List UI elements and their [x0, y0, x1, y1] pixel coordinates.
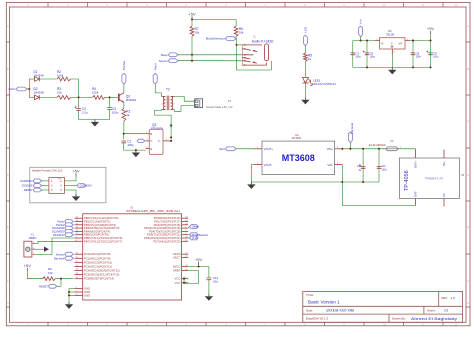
svg-text:10k: 10k	[48, 271, 53, 275]
wire gnd2	[69, 291, 75, 293]
svg-text:T2: T2	[166, 88, 170, 92]
svg-text:100k: 100k	[92, 91, 99, 95]
svg-text:10: 10	[382, 323, 386, 327]
Q3 pin 1 B	[146, 133, 150, 135]
port Sensor	[168, 59, 178, 63]
junction R7 sleep	[191, 54, 193, 56]
LED1 204-10UYC/S530-A3	[302, 77, 308, 83]
wire to D1	[29, 78, 34, 80]
svg-text:PwrIn: PwrIn	[9, 87, 17, 91]
junction R7 sensor	[191, 60, 193, 62]
svg-text:2.2u: 2.2u	[82, 111, 88, 115]
IC U3 TP4056	[399, 158, 459, 198]
node PwrIn junction	[28, 88, 30, 90]
svg-text:Bat level: Bat level	[54, 256, 64, 260]
wire pin2 to 5V	[64, 177, 76, 181]
svg-text:2018-02-08: 2018-02-08	[326, 309, 354, 313]
svg-text:100k: 100k	[57, 74, 64, 78]
port PwrSw vertical above Q2	[122, 73, 126, 84]
junction out rail	[412, 40, 414, 42]
svg-text:100n: 100n	[416, 56, 422, 59]
svg-text:Ahmed El Baghdady: Ahmed El Baghdady	[411, 317, 457, 321]
svg-text:100u: 100u	[370, 56, 376, 59]
svg-text:RESET: RESET	[39, 284, 48, 288]
junction jack pin1 feed	[236, 44, 238, 46]
wire C12 to gnd	[208, 280, 210, 294]
wire input rail	[353, 40, 375, 42]
svg-text:C: C	[158, 139, 160, 143]
svg-text:VO: VO	[399, 42, 403, 45]
wire vcc1 stub	[184, 278, 188, 280]
svg-text:A: A	[467, 24, 469, 28]
junction gnd rail	[412, 66, 414, 68]
svg-text:VOUT-: VOUT-	[264, 163, 273, 167]
port LED vertical	[303, 35, 307, 46]
junction C3 top	[109, 96, 111, 98]
Q3 pin 2 C	[146, 140, 150, 142]
wire sleep to jack	[178, 54, 242, 56]
svg-text:RESET: RESET	[24, 188, 33, 192]
junction C10 bottom	[362, 181, 364, 183]
wire R6 to port node	[235, 36, 237, 38]
svg-text:12: 12	[454, 323, 458, 327]
regulator U2 78L05	[380, 38, 405, 49]
wire to R6	[235, 19, 237, 26]
TP4056 pin IN-	[443, 198, 445, 206]
svg-text:Audio-PJ-342D: Audio-PJ-342D	[252, 39, 274, 43]
ground MCU	[68, 302, 70, 304]
junction C10 top	[362, 148, 364, 150]
wire xtal pin1 to PB6	[35, 238, 75, 255]
wire Q2 collector up	[123, 84, 125, 92]
wire to jack pin1	[237, 44, 242, 46]
wire vcc2 stub	[184, 282, 188, 284]
svg-text:100n: 100n	[213, 281, 219, 284]
svg-text:2N3904: 2N3904	[126, 98, 137, 102]
subsheet Header Female 2.54 2x3	[30, 167, 106, 203]
svg-text:78L05: 78L05	[386, 33, 394, 37]
wire vertical split	[28, 79, 30, 97]
wire C3 to gnd rail	[109, 110, 111, 120]
diode D1 1N4148	[35, 77, 40, 82]
capacitor C7 100n	[351, 53, 356, 55]
junction gnd2	[68, 291, 70, 293]
wire C11 column	[378, 149, 380, 182]
port PwrIn MCU	[65, 220, 74, 224]
svg-text:100n: 100n	[381, 169, 387, 172]
port Vin vertical	[359, 26, 363, 37]
svg-text:F: F	[7, 279, 9, 283]
ground	[135, 150, 137, 152]
svg-text:PB7(XTAL2)(TOSC2)(PCINT7): PB7(XTAL2)(TOSC2)(PCINT7)	[84, 239, 123, 243]
svg-text:2A 3F 220VAC: 2A 3F 220VAC	[369, 143, 386, 147]
svg-text:PwrV: PwrV	[153, 63, 157, 70]
port VarV	[226, 147, 237, 151]
svg-text:1/1: 1/1	[444, 309, 449, 313]
junction above Q3 pin4	[170, 136, 172, 138]
wire R7 down	[191, 36, 193, 60]
transistor Q3 FZT600TA	[149, 129, 163, 154]
wire to D2	[29, 96, 34, 98]
svg-text:10k: 10k	[239, 31, 244, 35]
wire fuse to BAT+	[399, 148, 416, 150]
port Bat-level vertical	[348, 132, 352, 143]
svg-text:[1:2]: [1:2]	[192, 236, 197, 240]
svg-text:100n: 100n	[355, 56, 361, 59]
wire BAT- to gnd	[342, 182, 415, 206]
wire to C12	[208, 267, 210, 278]
svg-text:Sensor: Sensor	[159, 59, 168, 63]
junction gnd3	[68, 294, 70, 296]
junction base node	[123, 133, 125, 135]
wire T2 primary bottom to Q3	[155, 110, 172, 141]
svg-text:D13/SCK: D13/SCK	[22, 184, 33, 188]
svg-text:16MHz: 16MHz	[29, 237, 38, 240]
TP4056 pin IN+	[443, 150, 445, 158]
port PwrSw MCU	[65, 223, 74, 227]
svg-text:VIN+: VIN+	[327, 147, 334, 151]
wire reset	[42, 189, 49, 191]
wire port to node	[27, 88, 29, 90]
svg-text:F: F	[467, 279, 469, 283]
wire pin6 to gnd	[64, 190, 76, 194]
svg-text:Bat level: Bat level	[350, 123, 354, 134]
svg-text:D12/MISO: D12/MISO	[20, 179, 32, 183]
junction vin	[360, 40, 362, 42]
junction gnd	[135, 149, 137, 151]
junction 5V	[191, 18, 193, 20]
port Sleep	[168, 53, 178, 57]
wire R1 to node	[123, 121, 125, 134]
wire sleep stub	[188, 227, 189, 229]
resistor R6 10k	[234, 26, 238, 36]
TP4056 pin BAT-	[415, 198, 417, 205]
svg-text:Sleep: Sleep	[192, 225, 199, 229]
connector H1 header 2x3	[49, 178, 65, 194]
resistor R2 100k	[57, 77, 71, 81]
U1 left pins PB0-PB7	[75, 217, 83, 219]
svg-text:+5V: +5V	[188, 11, 196, 16]
wire R8 to PC6	[55, 278, 73, 280]
svg-text:VI: VI	[381, 42, 384, 45]
junction C11 top	[378, 148, 380, 150]
svg-text:1N4148: 1N4148	[34, 74, 45, 78]
wire LED to gnd	[304, 83, 306, 97]
Q3 pin 3 E	[146, 148, 150, 150]
wire battery rail	[342, 148, 385, 150]
svg-text:+5V: +5V	[24, 263, 32, 268]
svg-text:GND: GND	[84, 293, 90, 297]
diode D2 1N4148	[35, 95, 40, 100]
svg-text:Drawn By:: Drawn By:	[392, 317, 406, 321]
ground	[304, 97, 306, 99]
svg-text:E: E	[7, 225, 9, 229]
wire gnd rail	[353, 66, 431, 68]
port RESET	[33, 188, 42, 192]
svg-text:TP4056-FC-TS: TP4056-FC-TS	[425, 177, 443, 181]
wire D2 to R3	[40, 96, 57, 98]
svg-text:VarV: VarV	[219, 147, 225, 151]
junction vinm gnd	[341, 181, 343, 183]
resistor R1 1k	[122, 108, 126, 121]
port D12/MISO	[33, 179, 42, 183]
svg-text:11: 11	[421, 3, 424, 7]
svg-text:+5V: +5V	[427, 26, 435, 31]
svg-text:TITLE:: TITLE:	[306, 293, 314, 297]
svg-text:Date:: Date:	[306, 309, 313, 313]
svg-text:IN+: IN+	[442, 161, 446, 166]
MT3608 pin 2 VOUT-	[253, 164, 262, 166]
fuse F1 2A 3F 220VAC	[385, 148, 399, 150]
wire R2 to lower rail	[71, 79, 79, 97]
resistor R7 10k	[190, 26, 194, 36]
svg-text:11: 11	[421, 323, 424, 327]
svg-text:Sensor: Sensor	[56, 252, 64, 256]
wire mode stub1	[188, 234, 189, 236]
junction avcc	[198, 266, 200, 268]
wire C8 column	[412, 41, 414, 68]
svg-text:C: C	[150, 139, 152, 143]
ground crystal case	[35, 248, 44, 250]
wire reset port stub	[57, 285, 61, 287]
svg-text:V-in: V-in	[359, 19, 363, 24]
wire jack loop	[237, 39, 272, 70]
wire gnd rail mid	[251, 181, 379, 183]
svg-text:12: 12	[454, 3, 458, 7]
port V+ above T2	[153, 73, 157, 84]
port D13/SCK MCU	[65, 233, 74, 237]
svg-text:A: A	[7, 24, 9, 28]
svg-text:VCC: VCC	[174, 281, 180, 285]
wire 5V stem	[198, 265, 200, 267]
svg-text:+5V: +5V	[195, 257, 203, 262]
wire AREF loop	[184, 271, 199, 284]
jack pin end dots	[244, 44, 245, 45]
svg-text:B: B	[467, 67, 469, 71]
wire output rail	[410, 40, 431, 42]
wire gnd3	[69, 294, 75, 296]
junction vcc1	[183, 278, 185, 280]
title block	[303, 292, 463, 323]
resistor R3 10k	[57, 96, 71, 100]
ground C12	[208, 294, 210, 296]
ground	[75, 194, 77, 196]
wire Q2 emitter to R1	[123, 102, 125, 108]
svg-text:C12: C12	[213, 276, 219, 280]
IC U1 ATMEGA48	[83, 214, 182, 300]
wire port down	[360, 37, 362, 41]
wire to C2	[78, 97, 80, 108]
wire port down	[349, 143, 351, 149]
wire right edge down	[430, 41, 432, 68]
svg-text:VOUT+: VOUT+	[264, 147, 274, 151]
wire R4 to Q2 base	[105, 96, 119, 98]
svg-text:100p: 100p	[127, 143, 134, 147]
junction 5V out	[430, 40, 432, 42]
svg-text:FZT600TA: FZT600TA	[151, 127, 163, 130]
wire R3 to R4	[71, 96, 93, 98]
svg-text:C10: C10	[357, 165, 362, 168]
wire to C1	[123, 134, 125, 140]
wire miso	[42, 180, 49, 182]
svg-text:100u: 100u	[433, 56, 439, 59]
svg-text:10k: 10k	[57, 90, 62, 94]
svg-text:1.0: 1.0	[451, 296, 456, 300]
svg-text:ModeSelector: ModeSelector	[206, 37, 225, 41]
U1 right pins PD0-PD7	[182, 217, 189, 219]
junction Q3 collector to transformer	[170, 140, 172, 142]
ground	[94, 120, 96, 122]
frame tick marks	[47, 3, 49, 326]
wire T2 secondary bottom to P1 pin2	[174, 106, 194, 112]
svg-text:100n: 100n	[112, 111, 119, 115]
MT3608 pin 4 VIN-	[335, 164, 343, 166]
svg-text:VIN-: VIN-	[327, 163, 333, 167]
ground	[391, 67, 393, 69]
Q3 pin 4 C right	[163, 140, 171, 142]
wire port to T2 primary top	[155, 84, 161, 96]
svg-text:1k: 1k	[126, 113, 130, 117]
wire sensor to jack	[178, 60, 242, 62]
junction bat level	[349, 148, 351, 150]
svg-text:Sheet:: Sheet:	[427, 309, 436, 313]
svg-text:AREF: AREF	[173, 269, 181, 273]
junction C2 top	[78, 96, 80, 98]
svg-text:Header Female 2.54_2x3: Header Female 2.54_2x3	[32, 169, 63, 173]
port Sensor MCU	[65, 252, 74, 256]
svg-text:Sleep: Sleep	[161, 53, 169, 57]
MT3608 pin 3 VIN+	[335, 148, 343, 150]
wire T2 secondary top to P1 pin1	[174, 96, 194, 101]
transistor Q2 2N3904	[118, 94, 120, 102]
wire left down	[352, 41, 354, 68]
wire mode stub2	[188, 237, 189, 239]
wire ground rail	[79, 119, 110, 121]
wire C1 to Q3 pin3	[124, 143, 146, 150]
capacitor C9 100u	[428, 53, 433, 55]
wire pin2 to gnd rail	[251, 165, 253, 182]
junction C8 top	[412, 40, 414, 42]
svg-text:PwrSw: PwrSw	[122, 60, 126, 70]
capacitor C1 100p	[121, 141, 126, 143]
crystal Y1 16MHz	[24, 241, 32, 257]
connector P1 Header Male 2x1	[195, 99, 203, 108]
svg-text:D11/MOSI: D11/MOSI	[80, 184, 92, 188]
U1 GND pins	[75, 288, 83, 290]
wire gnd1	[69, 289, 75, 302]
svg-text:IN-: IN-	[442, 193, 446, 197]
svg-text:E: E	[467, 225, 469, 229]
wire C10 column	[362, 149, 364, 182]
junction C6 top	[366, 40, 368, 42]
svg-text:B: B	[7, 67, 9, 71]
junction reset	[60, 278, 62, 280]
ground	[250, 182, 252, 184]
port PwrIn	[16, 87, 27, 91]
svg-text:Basic Version 1: Basic Version 1	[308, 300, 340, 305]
svg-text:EasyEDA V5.1.3: EasyEDA V5.1.3	[306, 317, 329, 321]
wire C2 to gnd rail	[78, 111, 80, 120]
svg-text:Y1: Y1	[31, 232, 35, 236]
svg-text:MT3608: MT3608	[282, 153, 315, 163]
bus arrow on vertical	[170, 125, 173, 128]
wire pin4 to mosi port	[64, 185, 77, 187]
wire gnd pin down	[391, 54, 393, 67]
port D13/SCK	[33, 184, 42, 188]
junction gnd rail	[430, 66, 432, 68]
junction vinp	[341, 148, 343, 150]
svg-text:+5V: +5V	[72, 169, 80, 174]
capacitor C6 100u	[365, 53, 370, 55]
wire to C3	[109, 97, 111, 107]
wire AVCC rail	[188, 266, 209, 268]
svg-text:LED: LED	[304, 27, 308, 33]
wire to Q3 pin1	[124, 133, 146, 135]
svg-text:10k: 10k	[195, 31, 200, 35]
wire C6 column	[366, 41, 368, 68]
U1 left pins PC0-PC6	[75, 253, 83, 255]
port ModeSelector	[226, 37, 237, 41]
svg-text:10: 10	[382, 3, 386, 7]
svg-text:BAT+: BAT+	[414, 160, 418, 167]
port RESET MCU	[48, 284, 57, 288]
svg-text:204-10UYC/S530-A3: 204-10UYC/S530-A3	[313, 83, 336, 86]
svg-text:E: E	[150, 147, 152, 151]
svg-text:D13/SCK: D13/SCK	[53, 233, 64, 237]
svg-text:LED1: LED1	[313, 78, 321, 82]
TP4056 BAT+ stub	[415, 149, 417, 158]
svg-text:TP-4056: TP-4056	[404, 170, 410, 191]
junction gnd rail	[366, 66, 368, 68]
junction vcc2	[183, 282, 185, 284]
U1 right pins ADC AVCC AREF VCC	[182, 253, 189, 255]
wire sck	[42, 185, 49, 187]
svg-text:ADC7: ADC7	[173, 256, 181, 260]
wire VIN- down	[341, 165, 343, 182]
svg-text:B: B	[150, 132, 152, 136]
wire to reset port	[60, 279, 62, 287]
svg-text:ATMEGA48_88_168_328-AU: ATMEGA48_88_168_328-AU	[126, 209, 180, 213]
svg-text:G: G	[391, 42, 393, 45]
svg-text:P1: P1	[228, 99, 232, 103]
svg-text:PD7(AIN1)(PCINT23): PD7(AIN1)(PCINT23)	[154, 239, 181, 243]
wire to R7	[191, 19, 193, 26]
resistor R5 1k	[304, 53, 308, 61]
wire port to R5	[304, 46, 306, 53]
svg-text:MT3608: MT3608	[292, 137, 301, 140]
svg-text:PC6(RESET)(PCINT14): PC6(RESET)(PCINT14)	[84, 277, 114, 281]
wire D1 to R2	[40, 78, 57, 80]
svg-text:BAT-: BAT-	[414, 190, 418, 196]
wire R5 to LED	[304, 61, 306, 77]
resistor R4 100k	[92, 96, 105, 100]
wire VarV to pin1	[236, 148, 253, 150]
wire xtal pin3 to PB7	[35, 241, 75, 243]
port D11/MOSI MCU	[65, 226, 74, 230]
resistor R8 10k	[42, 277, 55, 281]
port on Q3 pin2	[137, 139, 145, 142]
IC U4 MT3608	[262, 141, 335, 175]
wire 5V to R8	[27, 271, 42, 279]
port Bat level MCU	[65, 256, 74, 260]
svg-text:Header Male 2.54_1x2: Header Male 2.54_1x2	[206, 105, 233, 109]
MT3608 pin 1 VOUT+	[253, 148, 262, 150]
wire 5V rail	[192, 18, 236, 20]
svg-text:REV:: REV:	[442, 296, 449, 300]
port D12/MISO MCU	[65, 230, 74, 234]
svg-text:1N4148: 1N4148	[34, 90, 45, 94]
